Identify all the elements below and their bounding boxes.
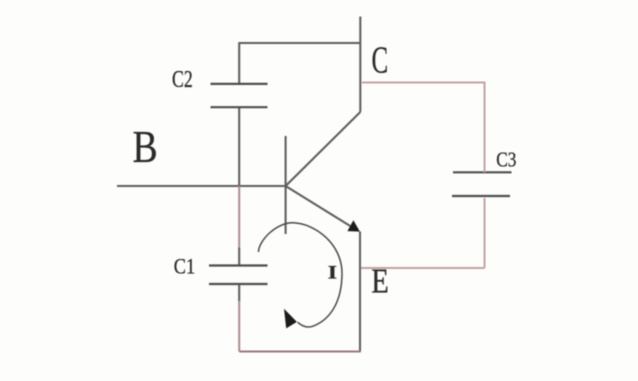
svg-text:C: C: [372, 38, 389, 81]
svg-text:C3: C3: [496, 149, 516, 172]
svg-text:B: B: [133, 122, 158, 172]
svg-text:E: E: [371, 261, 389, 300]
svg-text:C2: C2: [172, 65, 193, 92]
svg-text:C1: C1: [174, 255, 195, 279]
svg-text:I: I: [328, 262, 337, 283]
